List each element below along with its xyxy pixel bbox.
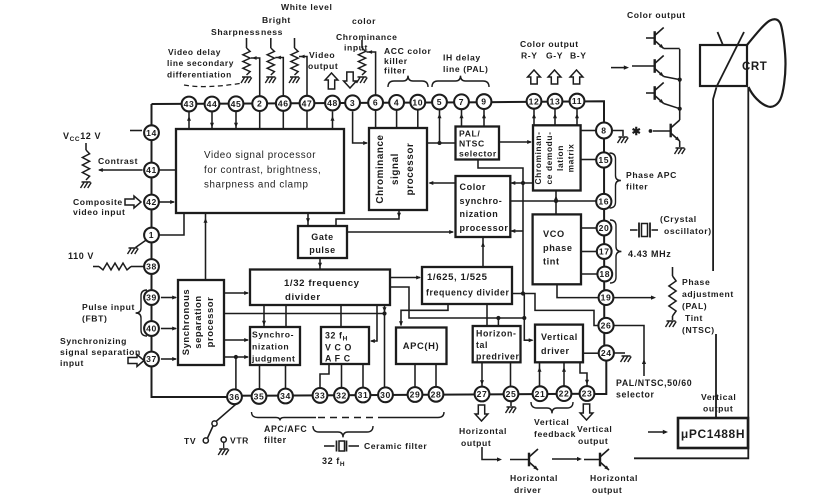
pin 13 — [548, 94, 563, 109]
svg-text:Vertical: Vertical — [701, 392, 736, 402]
wire divider to 32fH VCO — [340, 305, 342, 327]
block Chrominance demodulation matrix — [533, 125, 581, 190]
svg-text:32: 32 — [336, 390, 347, 400]
pin 24 — [599, 345, 614, 360]
wire chroma proc to PAL/NTSC selector — [427, 141, 456, 145]
wire pin 7 from PAL/NTSC selector — [460, 109, 464, 127]
CRT gun line — [716, 32, 744, 87]
svg-text:processor: processor — [204, 297, 215, 348]
label Horizontal output Q6 — [590, 473, 638, 495]
wire Q1 emitter to bus — [664, 48, 680, 50]
svg-text:Horizontal: Horizontal — [459, 426, 507, 436]
svg-text:25: 25 — [506, 389, 517, 399]
svg-text:VTR: VTR — [230, 436, 249, 446]
svg-text:ACC color: ACC color — [384, 46, 431, 56]
svg-text:36: 36 — [229, 392, 240, 402]
wire pin 3 to chrominance processor — [353, 111, 368, 145]
label Pulse input (FBT) — [82, 302, 135, 324]
svg-text:B-Y: B-Y — [570, 51, 587, 61]
svg-text:1: 1 — [149, 230, 154, 240]
arrow into uPC1488H — [648, 430, 668, 434]
svg-text:Vertical: Vertical — [541, 332, 578, 342]
wire judgment to pin 35 — [259, 365, 261, 389]
svg-text:10: 10 — [412, 97, 423, 107]
pin 43 — [182, 97, 197, 112]
pin 36 — [227, 389, 242, 404]
svg-text:Horizon-: Horizon- — [476, 329, 516, 339]
pin 20 — [597, 221, 612, 236]
svg-text:output: output — [703, 404, 733, 414]
transistor Q2 color output — [632, 56, 664, 77]
svg-text:Synchronizing: Synchronizing — [60, 336, 127, 346]
potentiometer color — [357, 40, 368, 83]
svg-text:video input: video input — [73, 207, 125, 217]
wire horizontal output to driver Q5 — [482, 447, 502, 462]
svg-text:✱: ✱ — [632, 126, 642, 138]
wire pin 11 from demodulation matrix — [575, 108, 579, 125]
block VCO phase tint — [533, 214, 581, 284]
transistor Q6 horizontal output — [584, 449, 609, 470]
svg-text:Contrast: Contrast — [98, 156, 138, 166]
svg-text:43: 43 — [184, 99, 195, 109]
svg-text:7: 7 — [459, 97, 464, 107]
block U2 uPC1488H — [678, 418, 748, 448]
arrow B-Y output (pin 11) — [570, 70, 583, 84]
block Chrominance signal processor — [369, 128, 427, 210]
svg-text:Bright: Bright — [262, 15, 291, 25]
svg-text:4.43 MHz: 4.43 MHz — [628, 249, 671, 259]
pin 14 — [144, 125, 159, 140]
svg-text:21: 21 — [535, 389, 546, 399]
svg-text:22: 22 — [559, 389, 570, 399]
label Video output — [308, 50, 338, 71]
svg-text:37: 37 — [146, 354, 157, 364]
svg-text:adjustment: adjustment — [682, 289, 734, 299]
wire pin 5 from chroma-PAL net — [438, 109, 442, 143]
pin 39 — [144, 290, 159, 305]
pin 25 — [504, 387, 519, 402]
wire Q4 collector to bus — [679, 49, 681, 120]
wire 32fH VCO to pin 33 — [320, 364, 329, 388]
label VTR — [230, 436, 249, 446]
svg-text:Composite: Composite — [73, 197, 123, 207]
block Horizontal predriver — [473, 326, 521, 362]
svg-text:1/625, 1/525: 1/625, 1/525 — [427, 272, 488, 283]
svg-text:signal: signal — [390, 153, 401, 185]
svg-text:Synchro-: Synchro- — [252, 330, 294, 340]
wire wiper sharpness to pin — [251, 56, 260, 96]
pin 30 — [378, 387, 393, 402]
svg-text:Video signal processor: Video signal processor — [204, 150, 316, 161]
wire vertical driver to pin 23 — [580, 362, 589, 386]
wire VCO to pin 19 — [557, 284, 599, 297]
wire wiper color to pin 6 — [367, 50, 376, 94]
svg-text:Horizontal: Horizontal — [590, 473, 638, 483]
wire pin 24 ground — [614, 353, 631, 362]
wire 1/625 to pin 26 select net — [512, 291, 599, 325]
svg-text:48: 48 — [327, 98, 338, 108]
transistor Q3 color output — [646, 83, 664, 104]
svg-text:μPC1488H: μPC1488H — [681, 427, 745, 441]
svg-text:output: output — [461, 438, 491, 448]
pin 23 — [580, 386, 595, 401]
crystal X1 — [630, 223, 658, 238]
wire pin 45 to video block — [234, 111, 238, 129]
block Synchronization judgment — [250, 327, 300, 365]
label White level — [281, 2, 333, 12]
svg-text:42: 42 — [146, 197, 157, 207]
svg-text:3: 3 — [350, 98, 355, 108]
resistor contrast pot — [81, 143, 92, 188]
wire pin 46 to video block — [282, 111, 284, 129]
svg-text:45: 45 — [231, 99, 242, 109]
svg-text:Chrominan-: Chrominan- — [533, 132, 543, 185]
pin 47 — [300, 96, 315, 111]
pin 46 — [276, 96, 291, 111]
block PAL/NTSC selector — [456, 127, 500, 160]
svg-text:Gate: Gate — [311, 232, 333, 242]
svg-text:Ceramic filter: Ceramic filter — [364, 441, 427, 451]
svg-text:19: 19 — [601, 293, 612, 303]
switch TV/VTR — [203, 404, 236, 455]
pin 3 — [345, 95, 360, 110]
wire base Q4 — [649, 129, 671, 133]
svg-text:lation: lation — [555, 145, 565, 171]
svg-text:matrix: matrix — [566, 144, 576, 173]
wire divider right to select net — [390, 287, 526, 320]
svg-text:38: 38 — [146, 262, 157, 272]
wire pin 10 to chrominance processor — [417, 109, 419, 128]
label PAL/NTSC 50/60 selector — [616, 378, 692, 400]
svg-text:TV: TV — [184, 436, 196, 446]
svg-text:34: 34 — [280, 391, 291, 401]
label ACC color killer filter — [384, 46, 431, 76]
label TV — [184, 436, 196, 446]
arrow G-Y output (pin 13) — [548, 70, 561, 84]
svg-text:oscillator): oscillator) — [664, 226, 712, 236]
arrow vertical output (pin 23) — [580, 404, 593, 420]
wire divider to pin 30 — [383, 305, 387, 388]
wire VCO to demod matrix — [554, 191, 558, 215]
svg-text:46: 46 — [278, 98, 289, 108]
wire demod matrix to pin 8 — [581, 130, 596, 132]
svg-text:13: 13 — [550, 96, 561, 106]
pin 28 — [429, 387, 444, 402]
wire pin 44 to video block — [210, 111, 214, 129]
wire Q4 emitter ground — [675, 141, 686, 154]
transistor Q4 color output driver — [671, 120, 680, 141]
arrow horizontal output (pin 27) — [475, 405, 488, 421]
wire pin 6 to chrominance processor — [375, 109, 377, 128]
svg-text:24: 24 — [601, 348, 612, 358]
wire gate pulse to color sync processor — [347, 230, 454, 234]
wire pin 12 from demodulation matrix — [532, 108, 536, 125]
wire pin 19 to phase pot — [614, 296, 657, 300]
potentiometer white-level — [289, 38, 300, 83]
pin 29 — [408, 387, 423, 402]
svg-text:Color output: Color output — [627, 10, 686, 20]
label CRT — [742, 61, 767, 73]
pin 31 — [356, 388, 371, 403]
svg-text:output: output — [578, 436, 608, 446]
wire select net to vertical driver — [524, 294, 533, 343]
label Brightness — [261, 15, 291, 37]
svg-text:29: 29 — [410, 390, 421, 400]
wire sync sep to video processor — [204, 213, 208, 280]
block 32fH VCO AFC — [321, 327, 369, 364]
wire VCO to pin 20 — [581, 227, 597, 229]
pin 7 — [454, 94, 469, 109]
CRT gun line 2 — [718, 32, 724, 45]
svg-text:killer: killer — [384, 56, 408, 66]
pin 19 — [599, 290, 614, 305]
wire VCO to pin 17 — [581, 251, 597, 253]
brace vertical feedback pins 21-22 — [531, 402, 573, 413]
wire divider to 1/625 — [390, 276, 421, 280]
wire sync sep to divider — [224, 291, 249, 295]
svg-text:Color: Color — [460, 182, 487, 192]
ceramic filter CF1 — [324, 441, 359, 452]
svg-text:White level: White level — [281, 2, 333, 12]
wire CRT vertical yoke lower — [715, 334, 717, 418]
wire pin 2 to video block — [259, 111, 261, 129]
brace 4.43MHz pins 20-18 — [610, 220, 621, 283]
transistor Q1 color output — [646, 28, 664, 49]
label 4.43 MHz — [628, 249, 671, 259]
potentiometer brightness — [265, 38, 276, 83]
svg-text:filter: filter — [626, 182, 648, 192]
svg-text:line (PAL): line (PAL) — [443, 64, 488, 74]
label Video delay line secondary differentiation — [167, 47, 243, 87]
label Color output top — [627, 10, 686, 20]
svg-text:Chrominance: Chrominance — [375, 134, 386, 203]
pin 26 — [598, 318, 613, 333]
svg-text:Sharpness: Sharpness — [211, 27, 260, 37]
wire pin 42 to video block — [158, 200, 175, 204]
pin 15 — [596, 152, 611, 167]
svg-text:color: color — [352, 16, 376, 26]
pin 21 — [533, 386, 548, 401]
wire CRT vertical yoke upper — [713, 87, 716, 271]
wire pin 40 to sync separation — [161, 327, 177, 331]
svg-text:31: 31 — [358, 390, 369, 400]
svg-text:filter: filter — [384, 66, 406, 76]
label 110 V — [68, 251, 94, 261]
svg-text:Video delay: Video delay — [168, 47, 221, 57]
svg-text:12: 12 — [529, 96, 540, 106]
svg-text:6: 6 — [373, 98, 378, 108]
svg-text:8: 8 — [601, 126, 606, 136]
wire 1/625 to APC(H) — [399, 304, 448, 326]
pin 9 — [477, 94, 492, 109]
svg-text:selector: selector — [616, 390, 655, 400]
label Horizontal driver — [510, 473, 558, 495]
svg-text:28: 28 — [431, 389, 442, 399]
svg-text:output: output — [592, 485, 622, 495]
wire divider to judgment b — [285, 305, 287, 327]
label color — [352, 16, 376, 26]
svg-text:Pulse input: Pulse input — [82, 302, 135, 312]
wire pin 21 to vertical driver — [538, 362, 542, 386]
arrow to color transistors — [611, 65, 629, 69]
wire pin 1 to video block — [159, 213, 184, 235]
label Vcc 12V — [63, 131, 101, 143]
svg-text:Color output: Color output — [520, 39, 579, 49]
transistor Q5 horizontal driver — [510, 449, 538, 470]
svg-text:17: 17 — [599, 247, 610, 257]
wire PAL/NTSC select net — [478, 160, 533, 294]
svg-text:CRT: CRT — [742, 61, 767, 73]
svg-text:1/32 frequency: 1/32 frequency — [284, 278, 360, 289]
wire APC(H) to pin 28 — [435, 364, 437, 387]
svg-text:APC(H): APC(H) — [403, 340, 439, 351]
arrow video output (pin 48) — [325, 73, 338, 89]
svg-text:Horizontal: Horizontal — [510, 473, 558, 483]
wire pin 39 to sync separation — [161, 296, 177, 300]
pin 1 — [144, 228, 159, 243]
wire pin 48 from video block — [331, 111, 335, 129]
wire 32fH VCO to pin 32 — [341, 364, 343, 388]
brace ceramic filter — [313, 426, 373, 437]
pin 32 — [334, 388, 349, 403]
wire wiper brightness to pin — [275, 56, 283, 97]
wire chrominance processor to gate pulse — [336, 211, 401, 227]
svg-text:sharpness and clamp: sharpness and clamp — [204, 180, 309, 191]
svg-text:2: 2 — [257, 99, 262, 109]
wire VCO to pin 18 — [581, 273, 598, 275]
svg-text:divider: divider — [285, 292, 321, 303]
pin 38 — [144, 259, 159, 274]
svg-text:APC/AFC: APC/AFC — [264, 424, 307, 434]
svg-text:separation: separation — [192, 295, 203, 348]
brace ACC filter pins 4-10 — [388, 76, 428, 87]
wire sync sep to judgment lower — [224, 355, 249, 359]
wire Q5 to Q6 — [552, 457, 582, 461]
block Synchronous separation processor — [178, 280, 224, 365]
svg-text:26: 26 — [601, 321, 612, 331]
wire pin 13 from demodulation matrix — [553, 108, 557, 125]
svg-text:Vertical: Vertical — [577, 424, 612, 434]
svg-text:V C O: V C O — [325, 343, 352, 353]
wire sync sep to judgment upper — [224, 338, 249, 342]
block Gate pulse — [298, 226, 347, 258]
svg-text:27: 27 — [477, 389, 488, 399]
label APC/AFC filter — [264, 424, 307, 445]
wire 1/625 to color sync — [481, 237, 485, 267]
svg-text:PAL/NTSC,50/60: PAL/NTSC,50/60 — [616, 378, 692, 388]
pin 11 — [570, 94, 585, 109]
svg-text:(NTSC): (NTSC) — [682, 325, 715, 335]
CRT neck — [700, 45, 747, 86]
wire divider to judgment a — [262, 305, 266, 327]
svg-text:14: 14 — [146, 128, 157, 138]
arrow R-Y output (pin 12) — [528, 70, 541, 84]
svg-text:G-Y: G-Y — [546, 51, 563, 61]
svg-text:input: input — [60, 358, 84, 368]
pin 48 — [325, 96, 340, 111]
svg-text:synchro-: synchro- — [460, 196, 503, 206]
svg-text:driver: driver — [541, 346, 570, 356]
svg-text:Chrominance: Chrominance — [336, 32, 398, 42]
label Phase adjustment (PAL) Tint (NTSC) — [682, 277, 734, 335]
svg-text:ness: ness — [261, 27, 283, 37]
svg-text:18: 18 — [599, 269, 610, 279]
pin 40 — [144, 321, 159, 336]
svg-text:signal separation: signal separation — [60, 347, 141, 357]
svg-text:47: 47 — [302, 98, 313, 108]
svg-text:judgment: judgment — [251, 354, 295, 364]
svg-text:30: 30 — [380, 390, 391, 400]
pin 22 — [557, 386, 572, 401]
pin 37 — [144, 352, 159, 367]
label Horizontal output pin27 — [459, 426, 507, 448]
svg-text:20: 20 — [599, 223, 610, 233]
arrow composite input — [125, 196, 141, 208]
label Composite video input — [73, 197, 125, 217]
wire pin 4 to chrominance processor — [396, 109, 398, 128]
svg-text:9: 9 — [481, 97, 486, 107]
svg-text:(PAL): (PAL) — [682, 301, 707, 311]
block Vertical driver — [535, 325, 583, 363]
svg-text:Vertical: Vertical — [534, 417, 569, 427]
wire pin 36 to judgment net — [235, 357, 237, 390]
label Chrominance input — [336, 32, 398, 53]
wire vertical driver to pin 24 — [583, 352, 599, 354]
svg-text:filter: filter — [264, 435, 287, 445]
wire predriver to pin 25 — [510, 362, 512, 386]
pin 2 — [252, 96, 267, 111]
svg-text:Tint: Tint — [685, 313, 703, 323]
pin 12 — [527, 94, 542, 109]
wire contrast wiper — [98, 156, 143, 172]
svg-text:frequency divider: frequency divider — [426, 288, 510, 298]
wire select net to predriver — [496, 316, 500, 326]
label Sharpness — [211, 27, 260, 37]
svg-text:pulse: pulse — [309, 245, 336, 255]
arrow chrominance input (pin 3) — [344, 72, 357, 88]
svg-text:15: 15 — [598, 155, 609, 165]
svg-text:differentiation: differentiation — [167, 70, 232, 80]
block 1/625 1/525 frequency divider — [422, 267, 512, 304]
svg-text:35: 35 — [254, 391, 265, 401]
wire pin 41 to video block — [159, 169, 176, 171]
resistor 110V — [93, 263, 144, 270]
svg-text:phase: phase — [543, 243, 573, 253]
pin 35 — [252, 389, 267, 404]
wire divider to 32fH VCO right — [370, 305, 377, 343]
pin 16 — [596, 194, 611, 209]
wire sync sep bus — [224, 311, 387, 315]
svg-text:R-Y: R-Y — [521, 51, 538, 61]
svg-text:(FBT): (FBT) — [82, 314, 107, 324]
svg-text:tal: tal — [476, 340, 488, 350]
svg-text:ce demodu-: ce demodu- — [544, 132, 554, 185]
block APC(H) — [396, 328, 447, 365]
label Crystal oscillator — [660, 214, 712, 236]
wire pin 1 ground — [128, 241, 146, 255]
svg-text:Synchronous: Synchronous — [180, 289, 191, 356]
label Ceramic filter — [364, 441, 427, 451]
wire color sync to chrominance proc — [429, 181, 456, 185]
svg-text:feedback: feedback — [534, 429, 576, 439]
label Vertical feedback — [534, 417, 576, 439]
pin 41 — [144, 163, 159, 178]
svg-text:11: 11 — [572, 96, 582, 106]
brace phase APC pins 15-16 — [610, 153, 621, 208]
label Vertical output uPC — [701, 392, 736, 414]
svg-text:Phase APC: Phase APC — [626, 170, 677, 180]
wire pin 37 to sync separation — [161, 357, 177, 361]
